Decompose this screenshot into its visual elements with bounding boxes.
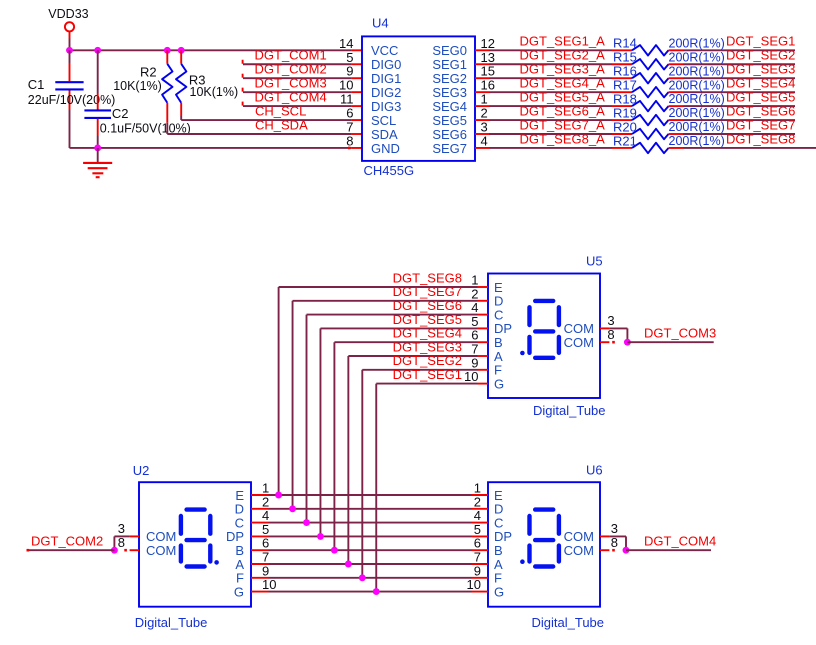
svg-text:14: 14 [339, 36, 353, 51]
wire bus row F [269, 577, 472, 579]
svg-text:DGT_SEG5: DGT_SEG5 [393, 312, 462, 327]
svg-text:DGT_COM3: DGT_COM3 [255, 76, 327, 91]
pin U5.7 A [478, 355, 489, 357]
svg-text:COM: COM [564, 321, 594, 336]
pin U5.8 COM [600, 341, 609, 343]
pin U5.1 E [478, 286, 489, 288]
svg-text:DGT_COM1: DGT_COM1 [255, 48, 327, 63]
7-segment digit of U6 [535, 507, 553, 511]
svg-text:DGT_SEG3: DGT_SEG3 [393, 339, 462, 354]
svg-text:2: 2 [474, 494, 481, 509]
svg-text:10K(1%): 10K(1%) [113, 79, 162, 93]
svg-text:D: D [235, 502, 244, 517]
svg-text:U2: U2 [133, 463, 150, 478]
svg-text:U5: U5 [586, 254, 603, 269]
svg-text:VCC: VCC [371, 43, 398, 58]
svg-text:6: 6 [471, 328, 478, 343]
wire net DGT_SEG2 [683, 63, 795, 65]
svg-text:200R(1%): 200R(1%) [669, 134, 725, 148]
wire DGT_SEG3 elbow [348, 355, 477, 357]
svg-text:7: 7 [474, 550, 481, 565]
svg-text:COM: COM [146, 529, 176, 544]
svg-text:SEG7: SEG7 [432, 141, 467, 156]
svg-text:CH_SDA: CH_SDA [255, 117, 308, 132]
svg-text:E: E [494, 280, 503, 295]
svg-text:DGT_SEG4: DGT_SEG4 [393, 326, 462, 341]
junction at R2 top [164, 47, 171, 54]
svg-text:CH455G: CH455G [364, 163, 415, 178]
svg-text:R18: R18 [613, 91, 637, 106]
svg-text:9: 9 [346, 64, 353, 79]
wire DGT_SEG7 vertical [292, 301, 294, 509]
svg-text:DGT_SEG1: DGT_SEG1 [393, 367, 462, 382]
pin U6.8 COM [600, 549, 609, 551]
wire net DGT_COM3 [627, 341, 713, 343]
junction bus row A [345, 561, 352, 568]
junction at R3 top [178, 47, 185, 54]
svg-text:SCL: SCL [371, 113, 396, 128]
wire DGT_SEG1 vertical [375, 384, 377, 592]
wire bus row D [269, 508, 472, 510]
svg-text:2: 2 [471, 286, 478, 301]
wire net DGT_SEG8 [683, 147, 816, 149]
svg-text:COM: COM [564, 529, 594, 544]
wire net DGT_COM4 [626, 549, 711, 551]
power symbol VDD33 [65, 22, 74, 31]
wire bus row C [269, 522, 472, 524]
pin U5.2 D [478, 300, 489, 302]
wire DGT_SEG5 vertical [319, 328, 321, 536]
pin U6.5 DP [472, 535, 489, 537]
pin U4.1 SEG4 [475, 105, 489, 107]
svg-text:SEG0: SEG0 [432, 43, 467, 58]
svg-text:Digital_Tube: Digital_Tube [533, 403, 606, 418]
svg-text:Digital_Tube: Digital_Tube [532, 615, 605, 630]
svg-text:9: 9 [474, 563, 481, 578]
svg-text:5: 5 [262, 522, 269, 537]
svg-text:DGT_COM3: DGT_COM3 [644, 325, 716, 340]
pin U5.4 C [478, 314, 489, 316]
junction U5 COM [624, 339, 631, 346]
svg-text:9: 9 [471, 355, 478, 370]
pin U4.14 VCC [352, 49, 362, 51]
svg-text:SEG6: SEG6 [432, 127, 467, 142]
svg-text:10K(1%): 10K(1%) [190, 85, 239, 99]
svg-text:DGT_SEG3: DGT_SEG3 [726, 62, 795, 77]
svg-text:R17: R17 [613, 77, 637, 92]
svg-text:DGT_SEG7_A: DGT_SEG7_A [520, 117, 606, 132]
svg-text:5: 5 [474, 522, 481, 537]
pin U4.16 SEG3 [475, 91, 489, 93]
svg-text:2: 2 [262, 494, 269, 509]
wire net DGT_SEG8_A [489, 147, 612, 149]
svg-text:R20: R20 [613, 119, 637, 134]
wire R3 to SCL [180, 116, 182, 120]
pin U4.8 GND [352, 147, 362, 149]
wire DGT_SEG3 vertical [347, 356, 349, 564]
svg-text:DGT_SEG2: DGT_SEG2 [393, 353, 462, 368]
svg-text:COM: COM [146, 543, 176, 558]
pin U2.7 A [251, 563, 269, 565]
svg-text:10: 10 [339, 78, 353, 93]
svg-text:DGT_SEG1_A: DGT_SEG1_A [520, 34, 606, 49]
svg-text:1: 1 [262, 481, 269, 496]
wire U2 COM3 elbow [114, 535, 129, 537]
svg-text:1: 1 [471, 273, 478, 288]
wire DGT_SEG7 elbow [293, 300, 478, 302]
wire bus row E [269, 494, 472, 496]
svg-text:DGT_SEG8: DGT_SEG8 [393, 270, 462, 285]
wire U5 COM3 elbow [609, 327, 627, 329]
svg-text:DGT_COM2: DGT_COM2 [255, 62, 327, 77]
svg-text:DGT_SEG6: DGT_SEG6 [726, 103, 795, 118]
resistor R19 [612, 119, 632, 121]
display U5 body [488, 274, 600, 399]
pin U6.1 E [472, 494, 489, 496]
pin U2.6 B [251, 549, 269, 551]
svg-text:DGT_SEG4: DGT_SEG4 [726, 76, 795, 91]
svg-text:DIG1: DIG1 [371, 71, 401, 86]
wire DGT_SEG4 vertical [333, 342, 335, 550]
svg-text:R16: R16 [613, 64, 637, 79]
wire bottom GND rail [70, 147, 352, 149]
resistor R14 [612, 49, 632, 51]
wire net DGT_SEG6_A [489, 119, 612, 121]
svg-text:F: F [236, 571, 244, 586]
svg-text:12: 12 [481, 36, 495, 51]
pin U6.9 F [472, 577, 489, 579]
svg-text:C1: C1 [28, 77, 45, 92]
pin U4 row DGT_COM3 [352, 91, 362, 93]
pin U6.6 B [472, 549, 489, 551]
svg-text:DIG3: DIG3 [371, 99, 401, 114]
pin U2.8 COM [130, 549, 139, 551]
pin U2.5 DP [251, 535, 269, 537]
7-segment digit of U2 [187, 507, 205, 511]
svg-text:200R(1%): 200R(1%) [669, 106, 725, 120]
wire net DGT_COM3 [243, 91, 352, 93]
svg-text:200R(1%): 200R(1%) [669, 92, 725, 106]
svg-text:R2: R2 [140, 65, 157, 80]
pin U6.4 C [472, 522, 489, 524]
svg-text:3: 3 [481, 120, 488, 135]
svg-text:16: 16 [481, 78, 495, 93]
svg-text:4: 4 [471, 300, 478, 315]
svg-text:7: 7 [471, 342, 478, 357]
pin U4 row DGT_COM1 [352, 63, 362, 65]
svg-text:SEG1: SEG1 [432, 57, 467, 72]
resistor R18 [612, 105, 632, 107]
wire bus row A [269, 563, 472, 565]
svg-text:G: G [494, 584, 504, 599]
wire R2 to SDA [166, 123, 168, 134]
pin U5.5 DP [478, 327, 489, 329]
resistor R21 [612, 147, 632, 149]
pin U2.1 E [251, 494, 269, 496]
wire DGT_SEG8 elbow [279, 286, 478, 288]
pin U4.6 SCL [352, 119, 362, 121]
pin U5.9 F [478, 369, 489, 371]
svg-text:SEG3: SEG3 [432, 85, 467, 100]
svg-text:DP: DP [494, 321, 512, 336]
7-segment digit of U5 [535, 299, 553, 303]
svg-text:6: 6 [262, 536, 269, 551]
pin U4.7 SDA [352, 133, 362, 135]
svg-text:D: D [494, 502, 503, 517]
svg-text:DGT_SEG8: DGT_SEG8 [726, 131, 795, 146]
svg-text:B: B [494, 335, 503, 350]
pin U2.2 D [251, 508, 269, 510]
svg-text:4: 4 [474, 508, 481, 523]
pin U4.3 SEG6 [475, 133, 489, 135]
junction at C2 bottom / ground [94, 145, 101, 152]
junction bus row E [275, 492, 282, 499]
pin U4 row DGT_COM2 [352, 77, 362, 79]
svg-text:5: 5 [346, 50, 353, 65]
wire DGT_SEG8 vertical [278, 287, 280, 495]
ground [97, 148, 99, 163]
pin U5.3 COM [600, 327, 609, 329]
wire U6 COM3 elbow [609, 535, 626, 537]
svg-text:DGT_SEG1: DGT_SEG1 [726, 34, 795, 49]
junction bus row F [359, 574, 366, 581]
wire DGT_SEG4 elbow [334, 341, 477, 343]
pin U4 row DGT_COM4 [352, 105, 362, 107]
svg-text:10: 10 [464, 369, 478, 384]
pin U2.9 F [251, 577, 269, 579]
svg-text:15: 15 [481, 64, 495, 79]
svg-text:200R(1%): 200R(1%) [669, 64, 725, 78]
pin U4.12 SEG0 [475, 49, 489, 51]
svg-text:DIG0: DIG0 [371, 57, 401, 72]
svg-text:U4: U4 [372, 16, 389, 31]
svg-text:B: B [235, 543, 244, 558]
svg-text:GND: GND [371, 141, 400, 156]
svg-text:COM: COM [564, 335, 594, 350]
junction bus row D [289, 505, 296, 512]
wire DGT_SEG6 vertical [306, 315, 308, 523]
wire DGT_SEG5 elbow [320, 327, 477, 329]
svg-text:F: F [494, 363, 502, 378]
svg-text:D: D [494, 294, 503, 309]
wire net DGT_SEG2_A [489, 63, 612, 65]
svg-text:200R(1%): 200R(1%) [669, 78, 725, 92]
wire DGT_SEG1 elbow [376, 383, 477, 385]
wire net DGT_COM2 [28, 549, 114, 551]
svg-text:R19: R19 [613, 105, 637, 120]
svg-text:1: 1 [474, 481, 481, 496]
svg-text:U6: U6 [586, 463, 603, 478]
wire C1 bottom [69, 110, 71, 148]
svg-text:7: 7 [262, 550, 269, 565]
svg-text:4: 4 [262, 508, 269, 523]
wire net DGT_SEG1 [683, 49, 795, 51]
svg-text:DGT_COM2: DGT_COM2 [31, 533, 103, 548]
wire net DGT_SEG7_A [489, 133, 612, 135]
svg-text:11: 11 [340, 92, 354, 107]
wire DGT_SEG6 elbow [307, 314, 478, 316]
svg-text:DP: DP [226, 529, 244, 544]
svg-text:Digital_Tube: Digital_Tube [135, 615, 208, 630]
wire net DGT_SEG4 [683, 91, 795, 93]
resistor R20 [612, 133, 632, 135]
svg-text:DGT_COM4: DGT_COM4 [255, 90, 327, 105]
svg-text:6: 6 [474, 536, 481, 551]
wire top VCC rail [70, 49, 352, 51]
svg-text:CH_SCL: CH_SCL [255, 103, 306, 118]
wire net DGT_SEG1_A [489, 49, 612, 51]
wire net DGT_SEG7 [683, 133, 795, 135]
resistor R2 [166, 50, 168, 64]
pin U4.13 SEG1 [475, 63, 489, 65]
svg-text:3: 3 [607, 313, 614, 328]
wire net DGT_SEG4_A [489, 91, 612, 93]
wire bus row G [269, 591, 472, 593]
wire VDD33 to rail [69, 39, 71, 51]
svg-text:DGT_SEG8_A: DGT_SEG8_A [520, 131, 606, 146]
resistor R3 [180, 50, 182, 64]
svg-text:DGT_SEG7: DGT_SEG7 [393, 284, 462, 299]
pin U4.4 SEG7 [475, 147, 489, 149]
svg-text:G: G [494, 376, 504, 391]
wire DGT_SEG2 elbow [362, 369, 477, 371]
svg-text:C: C [494, 307, 503, 322]
resistor R16 [612, 77, 632, 79]
svg-text:22uF/10V(20%): 22uF/10V(20%) [28, 93, 116, 107]
pin U5.10 G [478, 383, 489, 385]
junction U2 COM [111, 547, 118, 554]
pin U4.2 SEG5 [475, 119, 489, 121]
svg-text:DGT_SEG6_A: DGT_SEG6_A [520, 103, 606, 118]
svg-text:8: 8 [346, 133, 353, 148]
resistor R17 [612, 91, 632, 93]
svg-text:DGT_SEG5: DGT_SEG5 [726, 90, 795, 105]
svg-text:200R(1%): 200R(1%) [669, 120, 725, 134]
wire DGT_SEG2 vertical [361, 370, 363, 578]
svg-text:DIG2: DIG2 [371, 85, 401, 100]
svg-text:R14: R14 [613, 36, 637, 51]
svg-text:SEG5: SEG5 [432, 113, 467, 128]
svg-text:2: 2 [481, 106, 488, 121]
svg-text:3: 3 [118, 521, 125, 536]
svg-text:DGT_SEG3_A: DGT_SEG3_A [520, 62, 606, 77]
svg-text:DGT_COM4: DGT_COM4 [644, 533, 716, 548]
svg-text:A: A [494, 557, 503, 572]
svg-text:DGT_SEG2: DGT_SEG2 [726, 48, 795, 63]
svg-text:DP: DP [494, 529, 512, 544]
wire net DGT_COM1 [243, 63, 352, 65]
svg-text:10: 10 [467, 577, 481, 592]
wire net DGT_SEG5 [683, 105, 795, 107]
svg-text:R21: R21 [613, 133, 637, 148]
pin U6.2 D [472, 508, 489, 510]
svg-text:6: 6 [346, 106, 353, 121]
svg-text:4: 4 [481, 133, 488, 148]
junction bus row B [331, 547, 338, 554]
svg-text:7: 7 [346, 120, 353, 135]
pin U2.10 G [251, 591, 269, 593]
junction bus row DP [317, 533, 324, 540]
pin U5.6 B [478, 341, 489, 343]
wire net DGT_SEG6 [683, 119, 795, 121]
svg-text:COM: COM [564, 543, 594, 558]
svg-text:SEG2: SEG2 [432, 71, 467, 86]
svg-text:5: 5 [471, 314, 478, 329]
pin U2.4 C [251, 522, 269, 524]
pin U6.7 A [472, 563, 489, 565]
svg-text:DGT_SEG6: DGT_SEG6 [393, 298, 462, 313]
svg-text:200R(1%): 200R(1%) [669, 50, 725, 64]
svg-text:DGT_SEG5_A: DGT_SEG5_A [520, 90, 606, 105]
svg-text:DGT_SEG7: DGT_SEG7 [726, 117, 795, 132]
op-amp U4 body [362, 36, 475, 160]
svg-text:A: A [494, 349, 503, 364]
svg-text:200R(1%): 200R(1%) [669, 36, 725, 50]
wire net DGT_SEG5_A [489, 105, 612, 107]
svg-text:A: A [235, 557, 244, 572]
svg-text:C: C [235, 515, 244, 530]
svg-text:DGT_SEG2_A: DGT_SEG2_A [520, 48, 606, 63]
svg-text:C2: C2 [112, 106, 129, 121]
svg-text:E: E [235, 488, 244, 503]
resistor R15 [612, 63, 632, 65]
svg-text:E: E [494, 488, 503, 503]
svg-text:13: 13 [481, 50, 495, 65]
svg-text:SEG4: SEG4 [432, 99, 467, 114]
svg-text:R15: R15 [613, 50, 637, 65]
junction at C1 top [66, 47, 73, 54]
pin U2.3 COM [130, 535, 139, 537]
svg-text:DGT_SEG4_A: DGT_SEG4_A [520, 76, 606, 91]
junction bus row G [373, 588, 380, 595]
capacitor C1 [69, 50, 71, 63]
junction at C2 top [94, 47, 101, 54]
wire bus row DP [269, 535, 472, 537]
svg-text:F: F [494, 571, 502, 586]
svg-text:10: 10 [262, 577, 276, 592]
pin U6.3 COM [600, 535, 609, 537]
capacitor C2 [97, 50, 99, 93]
svg-text:SDA: SDA [371, 127, 398, 142]
svg-text:9: 9 [262, 563, 269, 578]
display U2 body [139, 482, 251, 607]
display U6 body [488, 482, 600, 607]
junction bus row C [303, 519, 310, 526]
junction U6 COM [623, 547, 630, 554]
pin U6.10 G [472, 591, 489, 593]
pin U4.15 SEG2 [475, 77, 489, 79]
svg-text:1: 1 [481, 92, 488, 107]
wire C2 bottom [97, 136, 99, 148]
svg-text:C: C [494, 515, 503, 530]
svg-text:VDD33: VDD33 [48, 7, 88, 21]
wire net DGT_COM4 [243, 105, 352, 107]
wire net DGT_SEG3 [683, 77, 795, 79]
svg-text:3: 3 [611, 521, 618, 536]
wire net DGT_SEG3_A [489, 77, 612, 79]
wire net DGT_COM2 [243, 77, 352, 79]
svg-text:G: G [234, 584, 244, 599]
wire bus row B [269, 549, 472, 551]
svg-text:B: B [494, 543, 503, 558]
